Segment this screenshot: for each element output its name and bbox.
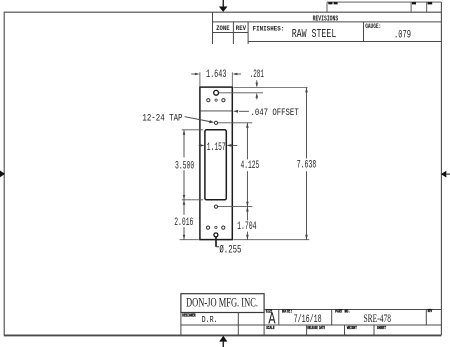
svg-text:7/16/18: 7/16/18 — [294, 314, 322, 326]
svg-text:RELEASE DATE: RELEASE DATE — [307, 326, 325, 331]
svg-text:D.R.: D.R. — [202, 314, 218, 325]
centering arrow top — [219, 0, 228, 12]
tab divider 1 — [326, 2, 328, 12]
finishes/gauge divider — [363, 22, 365, 42]
upper hole row: right — [222, 99, 225, 102]
revisions table left edge — [212, 12, 214, 44]
revisions header bottom — [213, 21, 442, 23]
zone/rev divider — [232, 22, 234, 44]
top hole (large) — [214, 90, 219, 95]
tab divider 2 — [410, 2, 412, 12]
lower hole row: left — [206, 226, 209, 229]
svg-text:1.157: 1.157 — [207, 142, 226, 154]
svg-text:FINISHES:: FINISHES: — [253, 26, 285, 33]
svg-text:DATE:: DATE: — [282, 310, 293, 315]
svg-text:.047 OFFSET: .047 OFFSET — [251, 108, 299, 119]
centering arrow left — [0, 171, 5, 178]
bottom hole (large, .255) — [214, 233, 218, 237]
border right — [440, 2, 442, 335]
title block grid lines — [181, 310, 442, 336]
svg-text:7.638: 7.638 — [297, 160, 317, 172]
svg-text:WEIGHT: WEIGHT — [347, 326, 357, 331]
svg-text:4.125: 4.125 — [241, 160, 260, 172]
svg-text:REV: REV — [236, 25, 246, 32]
svg-text:DESIGNER: DESIGNER — [182, 313, 196, 318]
svg-text:Ø.255: Ø.255 — [219, 245, 241, 257]
part/rev divider — [425, 310, 427, 325]
dimension 1.157 (cutout width) — [199, 144, 238, 147]
lower small hole — [214, 205, 217, 208]
svg-text:SHEET: SHEET — [377, 326, 386, 331]
svg-text:GAUGE:: GAUGE: — [365, 23, 381, 30]
date/part divider — [331, 310, 333, 326]
svg-text:REV: REV — [428, 309, 433, 314]
dimension 2.016 (cutout bottom to plate bottom) — [183, 200, 186, 240]
ext: 1.643 right — [231, 72, 233, 86]
title block left edge — [180, 313, 182, 336]
ext: plate bottom — [180, 239, 199, 241]
ext: 1.643 left — [199, 72, 201, 86]
border left — [3, 12, 5, 335]
size cell left edge — [263, 313, 265, 336]
ext: cutout bottom left — [182, 199, 203, 201]
ext: plate top right for .281/7.638 — [234, 87, 308, 89]
dimension 3.500 (cutout height) — [183, 130, 186, 200]
designer cell divider — [237, 313, 239, 336]
dimension 1.643 (top width) — [191, 73, 241, 76]
border bottom — [4, 334, 442, 336]
offset bend line — [200, 110, 232, 112]
svg-text:.281: .281 — [250, 69, 264, 81]
ext: top hole center — [219, 92, 263, 94]
finishes/gauge row bottom — [248, 41, 441, 43]
svg-text:SCALE: SCALE — [266, 326, 274, 331]
dimension 1.704 (lower hole to bottom) — [246, 207, 249, 240]
size/date divider — [278, 310, 280, 326]
rectangular cutout — [205, 130, 226, 200]
ext: cutout top left — [182, 129, 203, 131]
upper hole row: left — [207, 99, 210, 102]
company box DON-JO MFG. INC. — [181, 294, 264, 313]
weight/sheet divider — [373, 325, 375, 335]
release/weight divider — [344, 325, 346, 335]
svg-text:DON-JO MFG. INC.: DON-JO MFG. INC. — [186, 295, 258, 309]
tap hole 12-24 — [214, 121, 217, 124]
svg-text:.079: .079 — [394, 29, 411, 41]
label Ø.255 with leader — [216, 237, 219, 247]
plate outline — [200, 87, 232, 240]
svg-text:2.016: 2.016 — [174, 217, 193, 229]
rev/finishes divider — [247, 22, 249, 44]
svg-text:1.704: 1.704 — [237, 221, 257, 233]
svg-text:SRE-478: SRE-478 — [363, 313, 391, 325]
dimension 4.125 (tap hole to lower hole) — [246, 123, 249, 207]
tab top line — [327, 1, 441, 3]
centering arrow bottom — [219, 336, 227, 347]
svg-text:12-24 TAP: 12-24 TAP — [142, 112, 182, 123]
svg-text:ZONE: ZONE — [216, 25, 230, 32]
svg-text:RAW STEEL: RAW STEEL — [292, 28, 337, 41]
ext: tap hole — [218, 122, 253, 124]
tiny cut-off label marks — [328, 2, 432, 4]
dimension 7.638 (overall height) — [305, 88, 308, 240]
svg-text:REVISIONS: REVISIONS — [313, 15, 339, 23]
lower hole row: right — [222, 226, 225, 229]
title block middle rule — [181, 324, 442, 326]
upper hole row: middle — [215, 99, 217, 101]
border top — [4, 11, 442, 13]
title block right section top — [264, 309, 441, 311]
dimension .281 (top edge to hole) — [256, 80, 259, 99]
zone/rev row bottom — [213, 32, 249, 34]
svg-text:PART NO.: PART NO. — [335, 310, 350, 315]
extension lines — [180, 72, 310, 239]
tab divider 3 — [426, 2, 428, 12]
lower hole row: middle — [215, 226, 217, 228]
REVISIONS table lines — [213, 12, 442, 44]
ext: lower small hole — [218, 206, 253, 208]
svg-text:3.500: 3.500 — [175, 160, 194, 172]
svg-text:1.643: 1.643 — [206, 69, 226, 81]
top edge tab cells (cut-off revision header above border) — [327, 2, 441, 12]
centering arrow right — [441, 171, 450, 178]
scale/release divider — [306, 325, 308, 335]
